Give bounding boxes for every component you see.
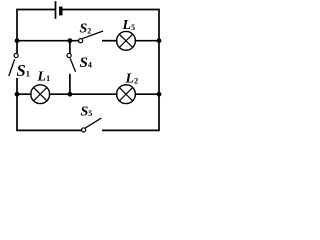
wire row1 right (lamp L5 to node C) xyxy=(136,40,160,42)
node D junction dot xyxy=(15,92,20,97)
wire bottom right (S5 to bottom-right corner up to node F) xyxy=(103,94,159,130)
switch S2 xyxy=(79,31,103,43)
node F junction dot xyxy=(157,92,162,97)
wire S4 branch upper xyxy=(69,41,71,53)
wire row1 mid (S2 to lamp L5) xyxy=(103,40,117,42)
node E junction dot xyxy=(68,92,73,97)
wire top right (battery to corner, down right side) xyxy=(63,10,160,41)
wire top left (corner to battery) xyxy=(17,10,55,41)
wire left side bottom (node D to bottom-left corner) xyxy=(17,94,82,130)
switch S5 xyxy=(82,118,101,132)
node B junction dot xyxy=(68,38,73,43)
switch S4 xyxy=(67,53,75,71)
wire right side mid (node C to node F) xyxy=(158,41,160,94)
wire row2 mid (lamp L1 to lamp L2 via node E) xyxy=(50,93,117,95)
node A junction dot xyxy=(15,38,20,43)
wire row2 right (lamp L2 to node F) xyxy=(136,93,160,95)
wire left side lower terminal of S1 xyxy=(16,79,18,94)
wire row1 left (node A to node B) xyxy=(17,40,78,42)
wire row2 left (node D to lamp L1) xyxy=(17,93,31,95)
wire S4 branch lower xyxy=(69,75,71,95)
switch S1 xyxy=(9,53,18,75)
wire left side upper terminal of S1 xyxy=(16,41,18,53)
lamp L5 xyxy=(117,31,136,50)
lamp L2 xyxy=(117,85,136,104)
node C junction dot xyxy=(157,38,162,43)
battery xyxy=(56,2,63,18)
lamp L1 xyxy=(31,85,50,104)
